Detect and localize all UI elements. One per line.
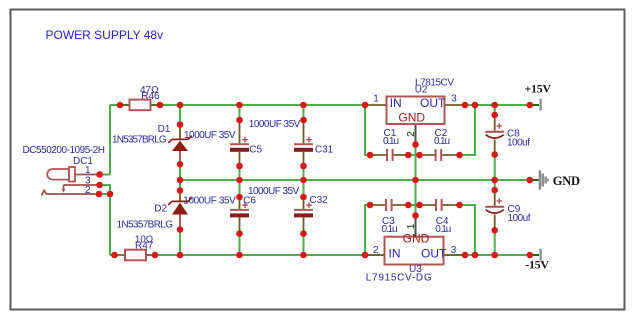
svg-text:3: 3 [451,245,457,256]
wire bypass row bottom right [459,205,475,255]
node dots rail A [117,102,124,109]
wire rail B middle [180,179,530,181]
wire +15V stub [530,104,539,106]
wire D1 top lead [179,124,181,139]
wire D1 bottom lead [179,151,181,164]
wire C3 leads [370,204,409,206]
wire R47 leads [115,254,156,256]
svg-text:GND: GND [398,110,425,124]
wire bypass row top left [365,105,371,155]
op-amp U3 regulator L7915CV-DG box [366,223,457,283]
svg-text:U2: U2 [415,84,428,95]
svg-text:1: 1 [405,223,417,229]
wire DC1 pin3 to down vertical [99,185,110,255]
DC1 switch arrow [63,185,65,190]
svg-text:1N5357BRLG: 1N5357BRLG [117,220,174,231]
svg-text:0.1u: 0.1u [435,224,451,235]
svg-text:C32: C32 [309,195,328,206]
wire U2 gnd pin stub [415,124,417,144]
capacitor C8 100uf polarized [485,123,530,149]
+15V supply terminal [524,82,551,111]
wire C32 column [303,180,305,255]
resistor R47 [125,235,154,261]
node dots D1 D2 column [177,121,184,128]
svg-text:D1: D1 [158,124,171,135]
wire C2 leads [420,154,460,156]
capacitor C5 1000UF 35V [184,130,263,155]
svg-text:+15V: +15V [524,82,551,96]
capacitor C31 1000UF 35V [249,119,334,155]
svg-text:IN: IN [389,246,401,260]
wire rail C bottom [110,254,530,256]
wire bypass row bottom left [365,205,371,255]
wire bypass row bottom middle [408,204,422,206]
svg-text:0.1u: 0.1u [383,136,399,147]
diode D1 (zener 1N5357BRLG) [112,124,192,151]
node dots bypass row bottom [367,202,374,209]
op-amp U2 regulator L7815CV box [373,77,457,137]
node dots C31 C32 column [300,117,307,124]
node dots rail C [111,252,118,259]
wire U3 pin3 lead [444,254,466,256]
wire C9 column [494,180,496,255]
svg-text:R46: R46 [141,91,160,102]
wire C31 leads [303,120,305,167]
node dots rail B right [527,177,534,184]
capacitor C1 0.1u [383,128,399,161]
svg-text:2: 2 [373,245,379,256]
capacitor C3 0.1u [382,199,398,235]
capacitor C6 1000UF 35V [183,195,256,217]
-15V supply terminal [525,249,549,272]
svg-text:R47: R47 [135,240,154,251]
wire GND stub [530,179,539,181]
svg-text:0.1u: 0.1u [434,136,450,147]
wire U2 gnd pin to rail B [415,144,417,180]
capacitor C32 1000UF 35V [248,186,328,217]
wire C9 leads [494,190,496,231]
diode D2 (zener 1N5357BRLG) [117,198,192,231]
capacitor C4 0.1u [435,199,451,235]
wire D2 top lead [179,190,181,201]
wire DC1 pin1 vertical to rail A [100,105,110,175]
svg-text:1000UF 35V: 1000UF 35V [183,195,236,206]
wire C6 column [239,180,241,255]
wire C5 column [239,105,241,180]
wire U2 pin3 lead [445,104,466,106]
wire D2 column [179,180,181,255]
wire C8 column [494,105,496,180]
svg-text:L7915CV-DG: L7915CV-DG [366,272,432,283]
wire C8 leads [494,115,496,155]
capacitor C2 0.1u [434,128,450,161]
wire D2 bottom lead [179,214,181,231]
wire C5 leads [239,120,241,167]
svg-text:D2: D2 [154,203,167,214]
wire C4 leads [420,204,460,206]
capacitor C9 100uf polarized [485,198,531,224]
svg-text:1000UF 35V: 1000UF 35V [249,119,301,130]
wire rail A right segment [465,104,530,106]
svg-text:100uf: 100uf [508,213,531,224]
wire D1 column [179,105,181,180]
node dots bypass row top [367,152,374,159]
svg-text:100uf: 100uf [507,138,530,149]
svg-text:1000UF 35V: 1000UF 35V [248,186,300,197]
svg-text:0.1u: 0.1u [382,224,398,235]
resistor R46 [130,85,161,110]
svg-text:1: 1 [373,94,379,105]
svg-text:C5: C5 [249,144,262,155]
svg-text:DC550200-1095-2H: DC550200-1095-2H [23,145,106,156]
svg-text:-15V: -15V [525,258,549,272]
wire R46 leads [120,104,161,106]
wire C1 leads [370,154,409,156]
svg-text:POWER SUPPLY 48v: POWER SUPPLY 48v [46,28,164,42]
svg-text:C31: C31 [315,144,334,155]
wire -15V stub [530,254,539,256]
svg-text:GND: GND [403,231,430,245]
svg-text:1N5357BRLG: 1N5357BRLG [112,135,167,146]
svg-text:2: 2 [85,185,91,196]
wire U3 gnd pin stub [415,216,417,237]
svg-text:OUT: OUT [421,246,447,260]
wire C6 leads [239,197,241,235]
svg-text:2: 2 [405,131,417,137]
wire U2 pin1 lead [365,104,387,106]
wire DC1 pin 3 lead [64,184,100,186]
node dots U2 U3 gnd column [412,141,419,148]
wire bypass row top middle [408,154,422,156]
wire C31 column [303,105,305,180]
wire rail A left segment [110,104,365,106]
wire U3 pin2 lead [365,254,386,256]
svg-text:1: 1 [85,165,91,176]
node dots C5 C6 column [236,117,243,124]
svg-text:OUT: OUT [420,96,446,110]
svg-text:GND: GND [553,174,580,188]
wire U3 gnd pin from rail B [415,180,417,216]
wire DC1 pin 2 lead with tip contact [42,191,100,196]
svg-text:1000UF 35V: 1000UF 35V [184,130,236,141]
svg-text:IN: IN [390,96,402,110]
wire bypass row top right [459,105,475,155]
wire DC1 pin 1 lead [75,174,100,176]
svg-text:3: 3 [451,94,457,105]
node dots C8 C9 column [491,112,498,119]
connector DC1 barrel jack [23,145,106,196]
node dots DC1 pins [96,171,103,178]
wire C32 leads [303,197,305,235]
ground GND symbol [539,170,580,189]
